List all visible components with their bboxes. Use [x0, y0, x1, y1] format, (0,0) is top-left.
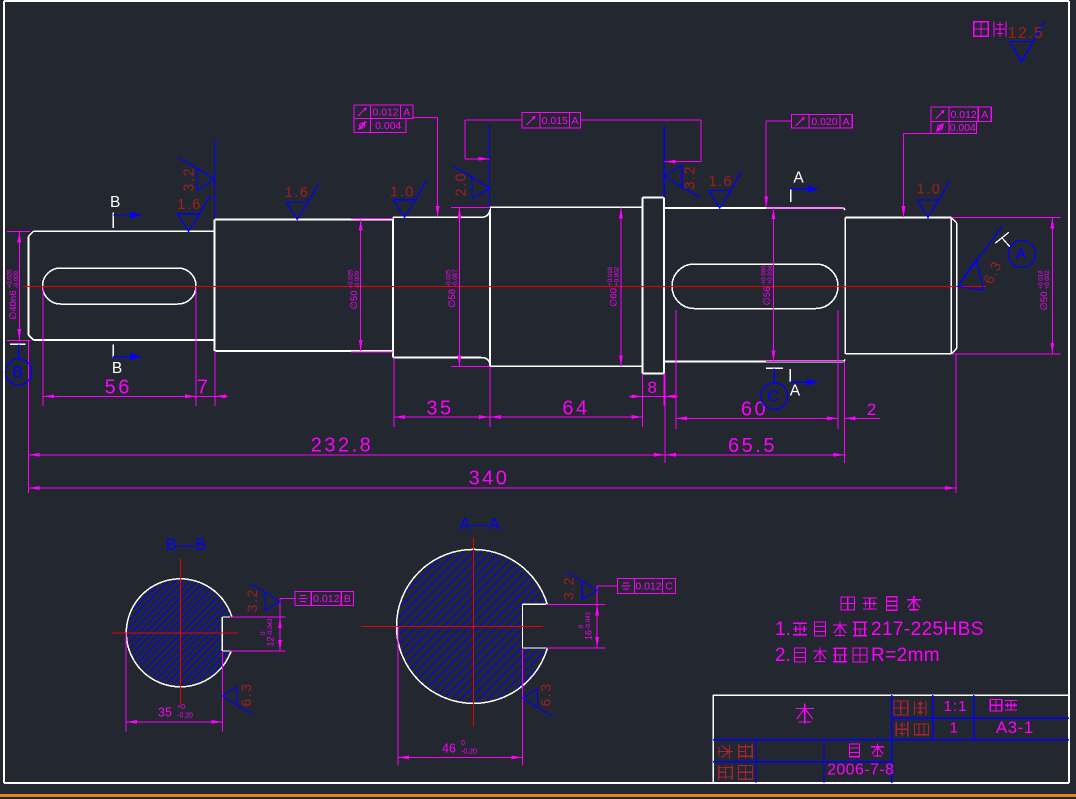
- svg-text:56: 56: [105, 377, 132, 399]
- svg-text:2006-7-8: 2006-7-8: [827, 762, 894, 779]
- svg-text:64: 64: [562, 398, 589, 420]
- svg-text:+0.002: +0.002: [613, 266, 620, 286]
- svg-text:16: 16: [584, 630, 594, 640]
- svg-text:232.8: 232.8: [311, 435, 374, 457]
- svg-text:0.004: 0.004: [950, 122, 976, 134]
- svg-text:0.012: 0.012: [635, 581, 661, 593]
- svg-text:12.5: 12.5: [1008, 25, 1044, 42]
- svg-text:B: B: [112, 360, 122, 377]
- svg-text:∅40n6: ∅40n6: [8, 291, 19, 320]
- svg-text:3.2: 3.2: [182, 167, 198, 192]
- svg-text:A: A: [1016, 246, 1027, 263]
- svg-text:3.2: 3.2: [683, 165, 699, 190]
- svg-text:-0.043: -0.043: [585, 611, 592, 629]
- svg-text:+0.034: +0.034: [767, 265, 774, 285]
- svg-text:-0.009: -0.009: [354, 270, 361, 288]
- svg-text:1.6: 1.6: [708, 174, 733, 190]
- svg-text:A: A: [793, 169, 804, 186]
- svg-text:∅56: ∅56: [762, 287, 773, 306]
- svg-text:R=2mm: R=2mm: [871, 645, 940, 666]
- svg-text:C: C: [665, 581, 673, 593]
- svg-text:6.3: 6.3: [238, 683, 254, 707]
- svg-text:∅60: ∅60: [609, 288, 620, 307]
- svg-text:0.015: 0.015: [542, 115, 568, 127]
- svg-text:65.5: 65.5: [728, 435, 777, 457]
- svg-text:A: A: [571, 115, 578, 127]
- svg-text:-0.009: -0.009: [13, 270, 20, 288]
- svg-text:35: 35: [158, 706, 172, 720]
- svg-text:A—A: A—A: [459, 516, 501, 534]
- svg-text:1.0: 1.0: [917, 182, 942, 198]
- svg-text:-0.087: -0.087: [452, 269, 459, 287]
- svg-text:3.2: 3.2: [561, 576, 577, 600]
- svg-text:-0.043: -0.043: [267, 618, 274, 636]
- svg-text:1.6: 1.6: [177, 197, 202, 213]
- svg-text:0.004: 0.004: [375, 120, 401, 132]
- svg-text:-0.20: -0.20: [461, 749, 477, 756]
- svg-text:C: C: [768, 388, 780, 405]
- svg-text:0.012: 0.012: [951, 109, 977, 121]
- svg-text:0.020: 0.020: [811, 116, 837, 128]
- svg-text:B: B: [110, 194, 120, 211]
- svg-text:1.0: 1.0: [390, 184, 415, 200]
- svg-text:3.2: 3.2: [244, 588, 260, 612]
- svg-text:8: 8: [648, 378, 660, 397]
- svg-text:∅50: ∅50: [349, 291, 360, 310]
- svg-text:A: A: [403, 106, 410, 118]
- svg-text:-0.20: -0.20: [177, 713, 193, 720]
- svg-text:340: 340: [469, 468, 510, 490]
- svg-text:+0: +0: [177, 704, 185, 711]
- svg-text:35: 35: [426, 398, 453, 420]
- svg-text:0: 0: [578, 625, 585, 629]
- svg-text:0.012: 0.012: [372, 106, 398, 118]
- svg-text:12: 12: [266, 637, 276, 647]
- svg-text:2.: 2.: [775, 645, 791, 666]
- svg-text:A: A: [843, 116, 850, 128]
- svg-text:A3-1: A3-1: [996, 718, 1034, 737]
- svg-text:0.012: 0.012: [313, 593, 339, 605]
- svg-text:2: 2: [867, 400, 876, 419]
- svg-text:A: A: [981, 109, 988, 121]
- svg-text:7: 7: [197, 377, 211, 399]
- svg-text:B: B: [12, 364, 23, 381]
- svg-text:A: A: [790, 382, 801, 399]
- svg-text:B: B: [344, 593, 351, 605]
- svg-text:60: 60: [741, 399, 768, 421]
- svg-text:1: 1: [950, 719, 958, 736]
- svg-text:6.3: 6.3: [538, 683, 554, 707]
- svg-text:2.0: 2.0: [453, 172, 469, 197]
- svg-text:∅58: ∅58: [447, 289, 458, 308]
- svg-text:1.6: 1.6: [285, 185, 310, 201]
- svg-text:0: 0: [260, 631, 267, 635]
- svg-text:+0.002: +0.002: [1044, 270, 1051, 290]
- svg-text:0: 0: [461, 740, 465, 747]
- svg-text:B—B: B—B: [166, 536, 208, 554]
- svg-text:∅50: ∅50: [1039, 292, 1050, 311]
- svg-text:1.: 1.: [775, 619, 791, 640]
- svg-text:1:1: 1:1: [944, 698, 968, 715]
- svg-text:217-225HBS: 217-225HBS: [871, 619, 984, 640]
- svg-text:46: 46: [442, 742, 456, 756]
